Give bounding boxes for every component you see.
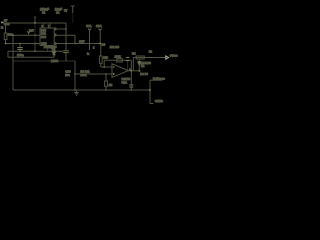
net label A wire x89 [89,30,91,50]
capacitor C5 plates [126,57,129,60]
svg-text:D2 54: D2 54 [140,72,148,76]
wire output riser x133.3 [132,58,134,71]
svg-text:GND1: GND1 [155,99,163,103]
wire opamp output [128,70,140,72]
svg-text:ATtiny25: ATtiny25 [44,45,57,49]
wire opamp minus input [101,66,112,68]
ground symbol bars [74,92,79,95]
capacitor C3 plates [17,48,22,50]
op-amp plus sign [113,73,115,75]
IC U1 right pin1 wire [54,28,66,30]
svg-text:tp: tp [87,52,90,56]
svg-text:2: 2 [93,47,95,50]
svg-text:100k: 100k [115,54,122,58]
IC U1 top stub b [49,23,51,28]
node x100 y43.5 [99,43,101,45]
resistor R7 top stub [105,74,107,81]
svg-text:C2: C2 [56,11,60,15]
wire y61 long [13,60,75,62]
node x35 y35.3 [34,34,36,36]
svg-text:PB3: PB3 [41,32,46,36]
node output x139.3 [138,70,140,72]
IC bottom stub x47.5 [47,48,49,52]
capacitor C3 bottom stub [19,50,21,52]
wire IC pin row y43.5 [6,43,41,45]
svg-text:R4: R4 [102,43,106,47]
node x131.3 y90 [131,89,133,91]
wire left ground vertical x13 [12,35,14,90]
diode D2 body [138,62,141,66]
svg-text:1M: 1M [109,83,113,87]
node x106 y90 [105,89,107,91]
wire feedback down leg [130,60,132,71]
resistor R5 body [117,59,123,62]
ground symbol stub [76,90,78,92]
resistor R4 bottom stub [100,63,102,67]
wire x35 lower2 [34,44,36,52]
node x75 y43.5 [74,43,76,45]
net label RST arrow [27,31,30,33]
svg-text:10k 1%: 10k 1% [110,45,120,49]
diode D1 stub [53,55,55,58]
node x75 y90 [74,89,76,91]
IC U1 right pin2 wire [54,34,75,36]
wire feedback top [104,59,131,61]
svg-text:7: 7 [48,25,50,28]
svg-text:C1: C1 [42,11,46,15]
node x35 y51.3 [34,50,36,52]
capacitor C3 top stub [19,44,21,48]
node x13 y35.3 [12,34,14,36]
port +Vout arrow [166,56,169,59]
wire x75 to ground rail [74,61,76,90]
wire y51.3 [8,50,63,52]
node output x131.3 [130,70,132,72]
capacitor C4 bottom wire [65,53,67,61]
IC U1 right pin3 wire [54,43,100,45]
net label B wire x100 [99,30,101,44]
op-amp U2 triangle [112,64,128,78]
power symbol T at x72.7 [71,6,75,23]
resistor R1 top stub [5,23,7,33]
resistor R7 bottom stub [105,86,107,90]
node C3 bottom [19,51,21,53]
ground rail y90 [13,89,150,91]
svg-text:CON: CON [4,23,10,26]
node x35 y43.5 [34,43,36,45]
svg-text:R8: R8 [132,51,136,55]
wire feedback up leg [103,60,105,67]
capacitor C6 top stub [130,71,132,85]
wire y57.3 [8,56,54,58]
wire IC pin row y35.3 [13,34,40,36]
svg-text:D2: D2 [141,64,145,68]
node x150 y90 [149,89,151,91]
svg-text:PB4: PB4 [41,35,46,39]
resistor R7 body [105,81,108,86]
svg-text:SCL: SCL [86,24,92,28]
svg-text:J1: J1 [1,27,4,30]
svg-text:10k: 10k [8,33,13,37]
wire opamp plus input [75,73,112,75]
capacitor C5 stub [127,61,129,71]
node plus input tap [105,73,107,75]
IC U1 top stub a [43,23,45,28]
port IN arrow [1,22,4,24]
diode D1 body [52,52,55,55]
capacitor C6 plates [129,85,133,87]
svg-text:10k: 10k [103,56,108,60]
wire VCC top rail [4,22,67,24]
wire output top y57.5 [133,57,166,59]
net label B arrow [99,29,102,31]
resistor R1 bottom stub [5,40,7,44]
svg-text:+Vout: +Vout [170,54,178,58]
svg-text:1k: 1k [149,49,153,53]
wire vertical x35 lower [34,23,36,44]
net label A arrow [88,29,91,31]
svg-text:CalSense: CalSense [153,76,166,80]
resistor R4 top stub [100,44,102,57]
svg-text:100n: 100n [17,53,24,57]
capacitor C4 plates [63,51,69,53]
wire cal drop x150 [149,80,151,103]
net stub x35 arrowhead [34,16,37,18]
svg-text:OUT: OUT [79,39,85,43]
resistor R8 body [136,56,144,59]
node x66 y43.5 [65,43,67,45]
wire VCC drop x66 [65,23,67,50]
svg-text:5V: 5V [4,19,7,23]
op-amp minus sign [113,66,115,68]
svg-text:5V: 5V [64,8,67,12]
wire net stub x35 [34,17,36,23]
node rail x35 [34,22,36,24]
net label RST stub [28,33,30,35]
node feedback tap [103,66,105,68]
diode D2 stub bottom [138,65,140,71]
capacitor C6 bottom stub [130,87,132,90]
wire cal bottom stub [150,103,153,105]
node x20 y43.5 [19,43,20,44]
svg-text:U2A: U2A [122,81,128,85]
node x66 y29 [65,28,67,30]
svg-text:10u: 10u [65,73,70,77]
diode D2 stub top [138,59,140,61]
node x75 y74 [74,73,76,75]
resistor R1 body [4,33,7,40]
node x5.5 y43.5 [5,43,7,45]
svg-text:8: 8 [42,25,44,28]
svg-text:SDA: SDA [96,24,102,28]
wire jog x75 [74,35,76,43]
IC U1 body [40,28,54,46]
resistor R4 body [99,56,102,63]
wire cal net y80 [150,79,163,81]
wire x8 left joint [7,51,9,57]
